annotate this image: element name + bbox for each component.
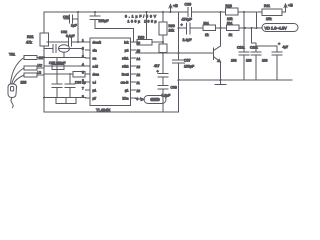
capacitor C02 upper stub [94, 12, 96, 16]
U1 pin 16 stub [131, 41, 136, 43]
wire vertical x70 [69, 74, 71, 84]
svg-text:220: 220 [21, 81, 27, 85]
node lower rail emitter [220, 79, 222, 81]
svg-text:100μF: 100μF [99, 19, 109, 23]
wire C06a down [56, 88, 58, 98]
node top rail x95 [94, 11, 96, 13]
wire pin16 to R08 [136, 41, 138, 43]
svg-text:12: 12 [137, 73, 141, 77]
fan motor oval [144, 96, 166, 104]
wire jog down [82, 49, 84, 58]
node collector row2 [220, 27, 222, 29]
svg-text:1μF: 1μF [71, 24, 77, 28]
wire pin9 to fan [136, 99, 145, 100]
wire crystal to jog [70, 48, 84, 50]
transistor VT1 emitter lead [214, 57, 221, 63]
node pin5 x70 [69, 73, 71, 75]
node base wire x178.5 [178, 52, 180, 54]
wire R14 down [162, 53, 164, 74]
capacitor C60 plates [188, 8, 192, 17]
transistor VT1 base wire [136, 52, 214, 54]
U1 pin 4 stub [86, 65, 91, 67]
transistor VT1 emitter arrow [217, 59, 220, 62]
U1 pin 9 stub [131, 97, 136, 99]
svg-text:L2: L2 [38, 71, 42, 75]
filter box 2 [24, 66, 37, 70]
wire pin5 net [44, 73, 73, 75]
wire collector vertical [220, 12, 222, 46]
wire C121 down [243, 55, 245, 80]
svg-text:103: 103 [231, 59, 237, 63]
svg-text:+B: +B [288, 4, 293, 8]
wire vertical x57 [56, 58, 58, 85]
node base wire x163 [162, 52, 164, 54]
svg-text:on: on [93, 57, 97, 61]
node top rail x170.5 [170, 11, 172, 13]
svg-text:1k: 1k [205, 33, 209, 37]
svg-text:10k: 10k [266, 17, 272, 21]
wire pin3 net [37, 57, 86, 59]
IC U1 body [90, 38, 131, 106]
svg-text:Bout: Bout [122, 73, 129, 77]
wire emitter vertical [220, 62, 222, 80]
svg-text:C60: C60 [185, 3, 192, 7]
wire top rail segment 1 [44, 11, 187, 13]
plug prong 2 [12, 68, 24, 84]
capacitor C141 plates [272, 52, 282, 55]
svg-text:0.1μF: 0.1μF [66, 34, 75, 38]
capacitor C10 plates [158, 74, 168, 78]
svg-text:10k: 10k [227, 17, 233, 21]
capacitor C12 plates [187, 23, 191, 34]
node collector top [220, 11, 222, 13]
filter box 1 [24, 55, 37, 59]
resistor R04 [52, 65, 64, 70]
U1 pin 15 stub [131, 49, 136, 51]
resistor R13 [227, 25, 240, 31]
svg-text:C07: C07 [184, 59, 190, 63]
transistor VT1 collector lead [214, 46, 221, 51]
wire crystal down [63, 52, 65, 57]
wire right vertical upper [178, 12, 180, 60]
resistor R08 [137, 40, 152, 46]
capacitor C02b plates [69, 38, 72, 46]
plug body [8, 84, 17, 98]
svg-text:iok: iok [124, 41, 129, 45]
wire C131 feed jog [252, 28, 257, 52]
fan motor core [150, 98, 160, 102]
node row2 x245 [244, 27, 246, 29]
plug prong 1 [11, 58, 25, 85]
wire top rail segment 4 [282, 11, 286, 13]
svg-text:4μ7: 4μ7 [283, 45, 289, 49]
svg-text:5k1: 5k1 [227, 22, 233, 26]
svg-text:R09: R09 [169, 24, 175, 28]
svg-text:4k7: 4k7 [154, 64, 160, 68]
svg-text:13: 13 [137, 65, 141, 69]
wire lower rail [179, 79, 293, 81]
wire C02 to pin16 [95, 20, 134, 43]
capacitor C01 stub [64, 18, 78, 20]
plug prong 3 [13, 75, 24, 84]
svg-text:dem: dem [93, 73, 100, 77]
wire drop x163 [162, 12, 164, 22]
U1 pin 13 stub [131, 65, 136, 67]
svg-text:r4k2: r4k2 [122, 65, 129, 69]
node box1 left vert [43, 57, 45, 59]
resistor R01 [40, 33, 49, 46]
capacitor C11 plates [158, 86, 168, 90]
svg-text:i1'm: i1'm [123, 97, 129, 101]
svg-text:100μF: 100μF [184, 65, 194, 69]
wire top rail segment 2 [192, 11, 226, 13]
svg-text:C06 1μ: C06 1μ [75, 81, 86, 85]
resistor R05 [73, 72, 85, 78]
svg-text:μ4: μ4 [125, 49, 129, 53]
resistor R10 [226, 8, 239, 15]
wire bottom rail [44, 111, 179, 113]
svg-text:470μF: 470μF [182, 18, 193, 22]
wire pin1 net [47, 41, 86, 43]
node row2 left [178, 27, 180, 29]
node row2 x251.5 [251, 27, 253, 29]
svg-text:g1: g1 [125, 89, 129, 93]
svg-text:deadt: deadt [93, 41, 101, 45]
U1 pin 6 stub [86, 81, 91, 83]
svg-text:103: 103 [262, 59, 268, 63]
capacitor C07 plates [173, 60, 185, 63]
arrow +B supply left [169, 5, 172, 13]
node top rail x146.5 [146, 11, 148, 13]
svg-text:C131: C131 [250, 46, 258, 50]
svg-text:14: 14 [137, 57, 141, 61]
node row2 x256.5 [256, 27, 258, 29]
svg-text:1k: 1k [229, 33, 233, 37]
capacitor C131 plates [251, 52, 261, 55]
U1 pin 11 stub [131, 81, 136, 83]
svg-text:0.3μF: 0.3μF [162, 94, 171, 98]
arrow +B supply right [284, 4, 287, 12]
wire R09 to R14 [162, 35, 164, 44]
svg-text:+B: +B [173, 4, 178, 8]
svg-text:+: + [278, 42, 281, 46]
svg-text:c.l: c.l [93, 81, 97, 85]
wire top rail segment 3 [238, 11, 262, 13]
plug pin detail [11, 87, 14, 92]
wire C121 feed vertical [243, 12, 245, 52]
wire C06b down [69, 88, 71, 98]
wire C131 down [255, 55, 257, 80]
svg-text:μ1: μ1 [93, 89, 97, 93]
svg-text:TL494N: TL494N [96, 108, 110, 113]
svg-text:10k: 10k [169, 29, 175, 33]
ground symbol [215, 80, 226, 85]
wire left vertical upper [43, 12, 45, 33]
transistor VT1 base bar [213, 48, 215, 60]
capacitor C06a plates [52, 84, 62, 88]
svg-text:2.4μF: 2.4μF [183, 38, 192, 42]
svg-text:R08: R08 [138, 36, 144, 40]
capacitor C03 plates [53, 45, 56, 53]
U1 pin 8 stub [86, 97, 91, 99]
U1 pin 7 stub [86, 89, 91, 91]
filter box 3 [24, 73, 37, 77]
svg-text:+: + [157, 70, 160, 74]
capacitor C121 plates [239, 52, 249, 55]
svg-text:C01: C01 [63, 15, 69, 19]
node pin8 left vert [43, 97, 45, 99]
capacitor C06b plates [65, 84, 75, 88]
wire C141 branch [256, 46, 277, 52]
resistor R07 [66, 98, 76, 104]
crystal bar [60, 48, 69, 50]
svg-text:5k1: 5k1 [204, 22, 210, 26]
svg-text:0.1μF/50V: 0.1μF/50V [125, 15, 157, 19]
output terminal oval [262, 24, 298, 32]
plug cord [11, 98, 13, 108]
wire right vertical lower [178, 63, 180, 112]
svg-text:r4k1: r4k1 [122, 57, 129, 61]
svg-text:a-kl: a-kl [93, 65, 99, 69]
crystal body [59, 45, 70, 52]
U1 pin 2 stub [86, 49, 91, 51]
wire left vertical lower [43, 46, 45, 112]
U1 pin 1 stub [86, 41, 91, 43]
svg-text:C08: C08 [171, 86, 177, 90]
svg-text:T01: T01 [9, 53, 15, 57]
wire C141 down [276, 55, 278, 80]
capacitor C01 plates [70, 15, 73, 23]
node C121 top rail [243, 11, 245, 13]
node pin4 x57 [56, 65, 58, 67]
svg-text:+: + [181, 23, 184, 27]
resistor R11 [262, 9, 282, 16]
node top rail x78 [77, 11, 79, 13]
wire C10 to C11 [162, 77, 164, 86]
svg-text:11: 11 [137, 81, 141, 85]
svg-text:R11: R11 [264, 4, 270, 8]
svg-text:μ7: μ7 [93, 97, 97, 101]
node lower rail x178.5 [178, 79, 180, 81]
resistor R06 [56, 98, 66, 104]
wire R08 to column [152, 41, 163, 43]
svg-text:R10: R10 [226, 4, 232, 8]
resistor R12 [203, 25, 216, 31]
wire C11 to rail [162, 89, 164, 112]
svg-text:VD 1.6~4.8V: VD 1.6~4.8V [265, 26, 288, 31]
fan arrowhead [141, 98, 145, 101]
node R08 column [162, 41, 164, 43]
U1 pin 12 stub [131, 73, 136, 75]
wire oval feed vertical [256, 12, 258, 28]
U1 pin 3 stub [86, 57, 91, 59]
U1 pin 10 stub [131, 89, 136, 91]
capacitor C02 plates [90, 16, 100, 20]
svg-text:R01: R01 [27, 35, 34, 39]
svg-text:47k: 47k [26, 41, 32, 45]
resistor R14 [159, 44, 167, 53]
wire drop x146.5 [146, 12, 148, 40]
svg-text:100μ 100μ: 100μ 100μ [128, 20, 157, 24]
svg-text:7: 7 [82, 87, 84, 91]
svg-text:UC: UC [38, 64, 43, 68]
node top rail x163 [162, 11, 164, 13]
wire row2 left [179, 27, 187, 29]
wire box3 out [37, 74, 44, 76]
svg-text:cin: cin [93, 49, 97, 53]
wire pin8 net [44, 97, 86, 99]
capacitor C02b gap [69, 39, 71, 45]
wire row2 mid1 [190, 27, 203, 29]
wire row2 right [239, 27, 262, 29]
svg-text:15: 15 [137, 49, 141, 53]
svg-text:1W: 1W [39, 56, 44, 60]
wire box2 out [37, 67, 44, 69]
svg-text:am-B: am-B [121, 81, 130, 85]
svg-text:C121: C121 [237, 46, 245, 50]
svg-text:10: 10 [137, 89, 141, 93]
U1 pin 14 stub [131, 57, 136, 59]
wire drop x78 [77, 12, 79, 42]
wire row2 mid2 [216, 27, 227, 29]
wire pin4 net [44, 65, 86, 67]
resistor R09 [159, 22, 167, 35]
node pin1 x78 [77, 41, 79, 43]
U1 pin 5 stub [86, 73, 91, 75]
wire pin2 net [44, 48, 52, 50]
svg-text:103: 103 [246, 59, 252, 63]
